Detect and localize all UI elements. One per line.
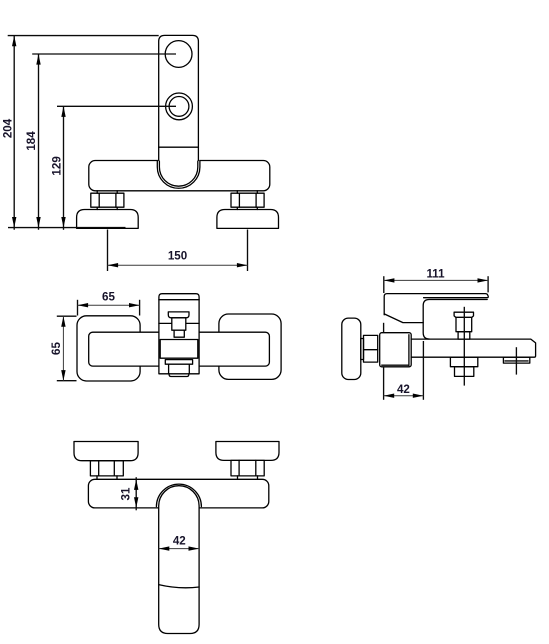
handle stub (plan) bbox=[169, 374, 189, 377]
right nut connector bottom bbox=[236, 207, 238, 209]
shower outlet nut (side view) bbox=[450, 357, 477, 367]
spout end edge (plan) bbox=[159, 322, 199, 324]
diverter cap (side view) bbox=[454, 312, 473, 317]
body block inner bottom edge bbox=[381, 364, 409, 366]
body bar (plan) bbox=[89, 332, 270, 366]
extension 111 left bbox=[383, 276, 385, 293]
body horizontal (front view) bbox=[89, 161, 270, 191]
svg-text:65: 65 bbox=[50, 342, 63, 355]
right escutcheon base bbox=[217, 210, 279, 229]
svg-text:129: 129 bbox=[51, 156, 64, 176]
svg-text:42: 42 bbox=[397, 383, 410, 396]
dimension line 42 (side) bbox=[384, 395, 424, 397]
dimension line 42 (bottom) bbox=[159, 548, 199, 550]
dimension line 204 bbox=[13, 36, 15, 230]
extension line 150 left bbox=[107, 230, 109, 272]
extension 65 v top bbox=[57, 315, 77, 317]
handle joint curve (bottom view) bbox=[159, 585, 199, 588]
FRONT VIEW bbox=[1, 35, 278, 271]
svg-text:150: 150 bbox=[168, 250, 187, 263]
handle lever (side view) bbox=[423, 300, 487, 340]
bath outlet centerline horizontal bbox=[504, 360, 528, 362]
PLAN VIEW bbox=[50, 291, 281, 381]
svg-text:65: 65 bbox=[102, 291, 115, 304]
right escutcheon (bottom view) bbox=[216, 442, 279, 461]
dimension line 150 bbox=[108, 264, 248, 266]
cartridge dome outer arc bbox=[157, 161, 200, 188]
extension 65 h left bbox=[77, 300, 79, 316]
diverter stem (side view) bbox=[458, 332, 470, 339]
upper circle (shower outlet) bbox=[165, 41, 192, 68]
extension line 184 bbox=[32, 53, 176, 55]
flange tab bbox=[361, 339, 364, 360]
lower circle outer ring bbox=[166, 93, 193, 120]
cartridge dome inner arc bbox=[159, 161, 197, 186]
extension 42 left lower bbox=[383, 367, 385, 400]
right mounting nut bbox=[231, 193, 264, 207]
svg-text:111: 111 bbox=[426, 268, 445, 281]
left nut connector top bbox=[96, 191, 98, 193]
shower outlet pipe (side view) bbox=[455, 367, 474, 377]
left foot square (plan) bbox=[77, 316, 140, 381]
extension line 129 bbox=[57, 105, 176, 107]
left mounting nut bbox=[91, 193, 124, 207]
extension 42 right bbox=[422, 341, 424, 400]
left escutcheon (bottom view) bbox=[74, 442, 138, 461]
lower circle inner ring bbox=[169, 97, 189, 117]
bath outlet centerline vertical bbox=[515, 347, 517, 374]
dimension line 31 bbox=[135, 477, 137, 510]
diverter body (side view) bbox=[456, 317, 472, 331]
extension 65 h right bbox=[139, 300, 141, 316]
right nut (bottom view) bbox=[231, 460, 264, 476]
bottom baseline bbox=[8, 227, 126, 229]
body (bottom view) bbox=[88, 479, 268, 508]
dimension line 65 horizontal bbox=[78, 304, 140, 306]
dimension line 111 bbox=[384, 279, 488, 281]
diverter knob stem2 (plan) bbox=[174, 330, 184, 337]
wall flange (side view) bbox=[342, 318, 361, 379]
BOTTOM VIEW bbox=[74, 442, 279, 634]
extension 65 v bottom bbox=[57, 380, 77, 382]
svg-text:31: 31 bbox=[120, 487, 133, 500]
diverter centerline bbox=[463, 307, 465, 386]
extension 42 left upper bbox=[383, 323, 385, 333]
diverter knob cap (plan) bbox=[168, 312, 189, 318]
handle (bottom view) bbox=[159, 486, 199, 634]
dimension line 129 bbox=[63, 106, 65, 230]
hose union nut (side view) bbox=[364, 335, 378, 362]
dimension line 184 bbox=[38, 54, 40, 230]
svg-text:184: 184 bbox=[25, 131, 38, 151]
extension 111 right bbox=[487, 276, 489, 292]
right foot square (plan) bbox=[219, 314, 281, 379]
extension line 204 bbox=[8, 35, 159, 37]
occluder strip under column bbox=[158, 159, 199, 163]
bath outlet flange (side view) bbox=[503, 357, 529, 363]
svg-text:42: 42 bbox=[173, 535, 186, 548]
handle bar lower (plan) bbox=[169, 364, 190, 374]
body block inner right edge bbox=[408, 334, 410, 366]
body block (side view) bbox=[380, 333, 412, 367]
column joint line bbox=[159, 146, 199, 148]
handle bar (plan) bbox=[165, 360, 192, 365]
left nut connector bottom bbox=[96, 207, 98, 209]
diverter knob stem (plan) bbox=[172, 318, 186, 330]
left nut (bottom view) bbox=[90, 461, 123, 476]
dimension line 65 vertical bbox=[62, 316, 64, 381]
left escutcheon base bbox=[77, 210, 139, 229]
faucet column (front view) bbox=[159, 35, 199, 160]
svg-text:204: 204 bbox=[1, 118, 14, 138]
handle dome outer arc (bottom view) bbox=[156, 484, 201, 507]
spout lower lip (side view) bbox=[384, 314, 423, 323]
spout tip edge (plan) bbox=[159, 299, 199, 301]
body arm (side view) bbox=[411, 339, 535, 357]
central block with spout (plan) bbox=[159, 294, 199, 374]
cartridge rect (plan) bbox=[160, 340, 198, 359]
SIDE VIEW bbox=[342, 268, 536, 400]
extension line 150 right bbox=[247, 230, 249, 272]
right nut connector top bbox=[236, 191, 238, 193]
spout top (side view) bbox=[384, 294, 488, 315]
